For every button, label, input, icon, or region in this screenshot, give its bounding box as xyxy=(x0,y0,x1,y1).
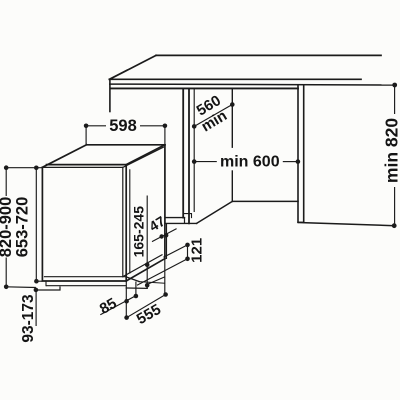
dishwasher inner top line xyxy=(42,166,122,168)
dim 653-720 line xyxy=(35,168,37,281)
dim 47 diagonal line xyxy=(152,229,177,242)
right wall front edge xyxy=(297,85,299,223)
svg-text:598: 598 xyxy=(109,117,137,135)
dishwasher back right edge xyxy=(164,145,166,259)
dim 653-720 bottom leader xyxy=(36,280,42,282)
dim 820-900 line xyxy=(5,168,7,196)
dot 560 left xyxy=(192,124,197,129)
svg-text:min 820: min 820 xyxy=(382,118,400,183)
dishwasher inner top-right diagonal xyxy=(123,147,164,167)
wall base bracket xyxy=(185,214,192,218)
dot 598 right xyxy=(163,124,168,129)
dot 598 left xyxy=(84,124,89,129)
svg-text:121: 121 xyxy=(189,238,206,263)
dishwasher inner right line xyxy=(122,167,124,276)
dishwasher top right diagonal xyxy=(126,145,165,165)
dot 165-245 bottom xyxy=(145,283,150,288)
dishwasher top left diagonal xyxy=(42,145,86,168)
svg-text:820-900: 820-900 xyxy=(0,197,15,258)
niche floor left diagonal xyxy=(197,201,233,223)
svg-text:653-720: 653-720 xyxy=(14,197,32,258)
dot 653-720 bottom xyxy=(34,279,39,284)
dim 598 extension left xyxy=(85,126,87,145)
dot 121 top xyxy=(185,243,190,248)
niche back corner vertical xyxy=(231,88,233,147)
plinth recess line xyxy=(47,285,126,287)
dot 653-720 top xyxy=(34,166,39,171)
dim 598 extension right xyxy=(164,126,166,145)
countertop underside edge / min820 leader xyxy=(110,83,395,86)
dim 165-245 line xyxy=(146,196,148,289)
svg-text:555: 555 xyxy=(134,301,164,328)
dim 85 diagonal line xyxy=(100,296,136,315)
extension below box back corner xyxy=(164,259,166,295)
wall bottom edge xyxy=(166,217,185,219)
dot min820 bottom xyxy=(392,223,397,228)
dim 121 lower leader xyxy=(137,259,188,285)
plinth back line xyxy=(139,282,165,284)
dot 47 left xyxy=(159,234,163,238)
floor line right xyxy=(299,223,395,226)
plinth side diagonal xyxy=(126,277,139,282)
dim 93-173 line xyxy=(35,290,37,326)
dishwasher inner bottom line xyxy=(45,276,127,278)
wall base step xyxy=(184,218,186,224)
niche floor back edge xyxy=(232,200,298,202)
dim 820-900 bottom leader xyxy=(6,286,36,289)
dim 121 upper leader xyxy=(163,245,187,257)
right wall back edge xyxy=(303,85,305,223)
niche left wall back edge xyxy=(188,88,190,223)
dot min600 left xyxy=(192,159,197,164)
dishwasher bottom back diagonal xyxy=(126,259,165,281)
dim 560/600 extension line xyxy=(193,88,195,212)
wall base vertical extension xyxy=(166,224,168,260)
dot 85 left xyxy=(124,299,129,304)
plinth front connector xyxy=(45,281,47,286)
svg-text:min 600: min 600 xyxy=(220,153,280,170)
dot min600 right xyxy=(296,159,301,164)
dot 93-173 top xyxy=(34,288,39,293)
dim 121 line xyxy=(187,245,189,259)
dim min600 line stubs xyxy=(194,161,217,163)
svg-text:93-173: 93-173 xyxy=(20,294,37,343)
dot 47 right xyxy=(164,233,168,237)
extension below box front corner xyxy=(125,281,127,318)
floor under box left xyxy=(36,287,60,290)
dim 555 diagonal line xyxy=(127,295,166,318)
dishwasher inner bottom-back diagonal xyxy=(123,255,162,277)
dot 560 right xyxy=(230,102,235,107)
countertop back edge xyxy=(156,54,381,56)
countertop left edge diagonal xyxy=(109,55,156,79)
countertop left corner vertical xyxy=(109,80,111,112)
extension below plinth corner xyxy=(135,282,137,297)
niche ceiling line xyxy=(111,87,298,89)
dishwasher front face xyxy=(42,165,126,281)
dim 820-900 top leader xyxy=(6,167,42,169)
dot 165-245 top xyxy=(145,262,150,267)
dishwasher side panel line xyxy=(129,170,131,273)
countertop front top edge xyxy=(109,78,361,80)
wall base line xyxy=(166,222,196,224)
svg-text:165-245: 165-245 xyxy=(131,206,147,258)
dishwasher top back edge xyxy=(87,144,165,146)
dot 555 right xyxy=(163,292,168,297)
dot 555 left xyxy=(124,315,129,320)
right wall bottom edge xyxy=(298,221,304,223)
dot min820 top xyxy=(392,83,397,88)
dot 820-900 top xyxy=(4,165,9,170)
dim 165-245 lower leader xyxy=(147,277,165,285)
dim 598 line stubs xyxy=(86,125,106,127)
dim 560 diagonal line xyxy=(194,105,232,127)
dot 820-900 bottom xyxy=(4,285,9,290)
niche left wall front edge xyxy=(182,88,184,217)
dot 121 bottom xyxy=(185,257,190,262)
dim min820 line xyxy=(394,85,396,114)
dot 85 right xyxy=(134,294,139,299)
floor under box right xyxy=(126,287,147,289)
